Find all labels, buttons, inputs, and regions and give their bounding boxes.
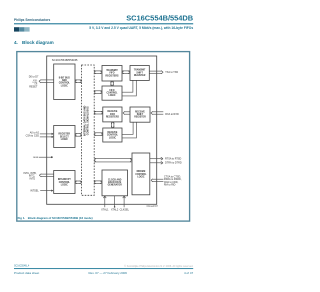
svg-text:REGISTER: REGISTER: [59, 134, 71, 136]
svg-text:AND: AND: [62, 79, 67, 82]
svg-text:SHIFT: SHIFT: [137, 114, 144, 116]
svg-text:GENERATOR: GENERATOR: [108, 184, 123, 187]
svg-text:RIA to RID: RIA to RID: [164, 184, 176, 187]
svg-text:RECEIVE: RECEIVE: [107, 111, 117, 113]
svg-text:RESET: RESET: [29, 86, 38, 89]
svg-text:TXA to TXD: TXA to TXD: [165, 71, 178, 74]
svg-text:LOGIC: LOGIC: [109, 137, 116, 139]
svg-text:CONTROL: CONTROL: [59, 83, 71, 85]
svg-text:SC16C554B/554DB: SC16C554B/554DB: [126, 13, 194, 22]
svg-text:© Koninklijke Philips Electron: © Koninklijke Philips Electronics N.V. 2…: [124, 265, 193, 268]
svg-text:Product data sheet: Product data sheet: [14, 271, 39, 275]
svg-text:FIFO: FIFO: [109, 90, 114, 92]
svg-text:LOGIC: LOGIC: [61, 139, 68, 141]
svg-text:Philips Semiconductors: Philips Semiconductors: [14, 18, 51, 22]
svg-text:MODEM: MODEM: [137, 171, 146, 173]
svg-text:16/68: 16/68: [33, 157, 39, 159]
svg-text:REGISTER: REGISTER: [134, 75, 146, 77]
svg-text:REGISTER: REGISTER: [134, 117, 146, 119]
svg-text:BAUD RATE: BAUD RATE: [108, 181, 122, 184]
svg-text:4 of 47: 4 of 47: [184, 271, 194, 275]
svg-text:8-BIT BUS: 8-BIT BUS: [59, 77, 70, 79]
svg-text:DTRA to DTRD: DTRA to DTRD: [165, 162, 182, 165]
svg-text:Rev. 07 — 27 February 2006: Rev. 07 — 27 February 2006: [89, 271, 128, 275]
svg-text:FIFO: FIFO: [110, 114, 115, 116]
svg-text:D0 to D7: D0 to D7: [29, 76, 39, 79]
svg-text:RECEIVE: RECEIVE: [107, 132, 117, 134]
svg-text:RXA to RXD: RXA to RXD: [165, 113, 179, 116]
svg-text:TRANSMIT: TRANSMIT: [134, 69, 146, 72]
svg-text:FIFO: FIFO: [109, 73, 114, 75]
svg-text:4.: 4.: [14, 40, 18, 45]
svg-text:Fig 1.: Fig 1.: [18, 216, 26, 220]
svg-text:TRANSMIT: TRANSMIT: [106, 69, 118, 72]
svg-text:CONTROL: CONTROL: [107, 135, 119, 137]
svg-text:LOGIC: LOGIC: [61, 85, 68, 87]
svg-text:SELECT: SELECT: [60, 136, 70, 138]
svg-text:5 V, 3.3 V and 2.5 V quad UART: 5 V, 3.3 V and 2.5 V quad UART, 5 Mbit/s…: [89, 26, 193, 30]
svg-text:CONTROL: CONTROL: [59, 182, 71, 184]
svg-text:INTD: INTD: [30, 177, 36, 180]
svg-text:INTSEL: INTSEL: [30, 190, 39, 193]
svg-text:SC16C554B/554DB: SC16C554B/554DB: [52, 58, 78, 62]
svg-text:CONTROL: CONTROL: [135, 174, 147, 176]
svg-text:RTSA to RTSD: RTSA to RTSD: [165, 158, 182, 161]
svg-text:Block diagram of SC16C554B/554: Block diagram of SC16C554B/554DB (16 mod…: [28, 216, 93, 220]
svg-text:LOGIC: LOGIC: [61, 185, 68, 187]
svg-text:Block diagram: Block diagram: [22, 40, 54, 45]
svg-text:XTAL1: XTAL1: [101, 209, 109, 212]
svg-text:REGISTERS: REGISTERS: [106, 117, 120, 119]
svg-text:CONTROL SIGNALS BUS: CONTROL SIGNALS BUS: [87, 106, 90, 135]
svg-text:CSA to CSD: CSA to CSD: [26, 135, 40, 138]
svg-text:CONTROL: CONTROL: [106, 93, 118, 95]
svg-text:SHIFT: SHIFT: [136, 72, 143, 74]
svg-text:XTAL2: XTAL2: [111, 209, 119, 212]
svg-text:RECEIVE: RECEIVE: [135, 111, 145, 113]
svg-text:002aab367: 002aab367: [147, 206, 159, 208]
svg-text:INTERRUPT: INTERRUPT: [58, 179, 72, 181]
svg-text:LOGIC: LOGIC: [108, 95, 115, 97]
svg-text:REGISTERS: REGISTERS: [105, 75, 119, 77]
svg-text:LOGIC: LOGIC: [137, 177, 144, 179]
svg-text:SC16C554B_4: SC16C554B_4: [14, 266, 30, 268]
svg-text:CLKSEL: CLKSEL: [120, 209, 130, 212]
svg-text:CLOCK AND: CLOCK AND: [108, 178, 122, 181]
